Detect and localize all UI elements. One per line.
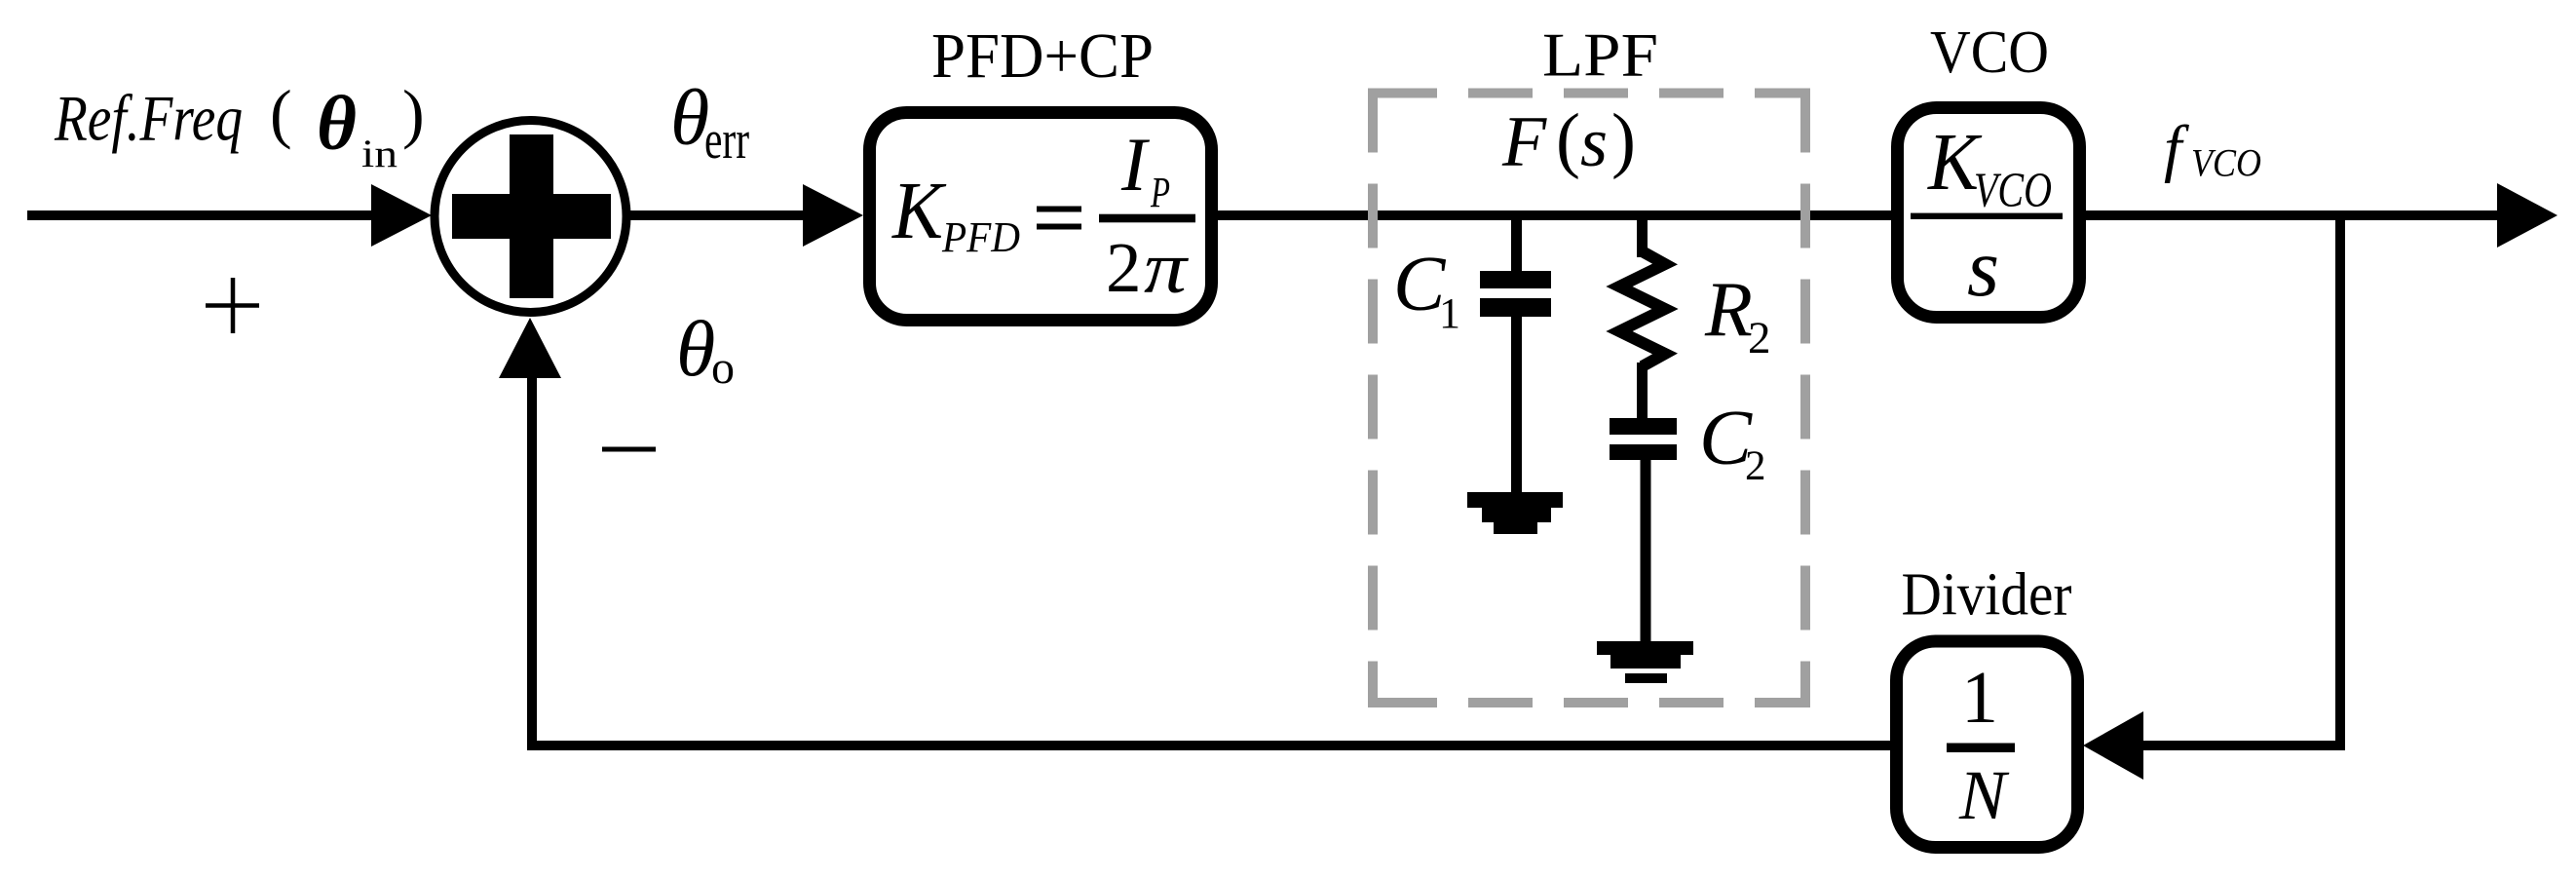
svg-text:VCO: VCO (1930, 19, 2049, 86)
svg-text:LPF: LPF (1542, 20, 1658, 90)
svg-text:PFD+CP: PFD+CP (931, 20, 1154, 92)
svg-text:I: I (1120, 122, 1151, 207)
svg-text:(: ( (270, 76, 292, 150)
svg-text:PFD: PFD (941, 213, 1020, 261)
svg-text:(: ( (1556, 99, 1580, 180)
svg-text:2: 2 (1106, 228, 1142, 307)
svg-text:K: K (891, 166, 947, 256)
svg-text:in: in (361, 132, 398, 175)
svg-text:s: s (1967, 222, 1999, 314)
svg-text:θ: θ (676, 304, 715, 393)
svg-text:1: 1 (1961, 657, 1998, 739)
svg-text:2: 2 (1748, 313, 1771, 363)
svg-text:π: π (1144, 227, 1189, 309)
svg-text:Divider: Divider (1902, 562, 2072, 629)
svg-text:VCO: VCO (1974, 164, 2052, 218)
svg-text:s: s (1580, 103, 1608, 181)
svg-text:θ: θ (317, 82, 357, 167)
svg-text:1: 1 (1439, 289, 1460, 337)
svg-text:): ) (1611, 99, 1636, 180)
svg-text:Ref.Freq: Ref.Freq (54, 83, 243, 155)
svg-text:P: P (1150, 169, 1170, 216)
svg-text:VCO: VCO (2191, 141, 2261, 185)
svg-text:R: R (1704, 267, 1753, 353)
svg-text:): ) (402, 76, 425, 150)
svg-text:N: N (1958, 756, 2010, 834)
svg-text:F: F (1501, 102, 1547, 182)
svg-text:o: o (711, 342, 735, 394)
svg-text:err: err (704, 110, 749, 171)
svg-text:2: 2 (1745, 443, 1766, 489)
